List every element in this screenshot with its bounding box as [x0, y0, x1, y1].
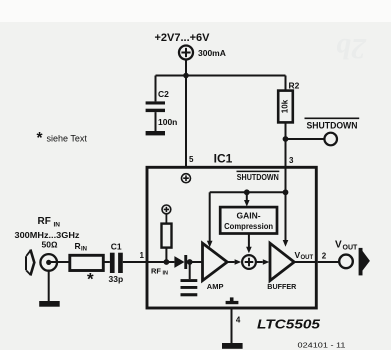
svg-text:*: *: [87, 270, 94, 289]
input arrow hollow: [26, 250, 34, 276]
value 100n: [158, 117, 177, 127]
node resistor/RF junction: [164, 259, 170, 265]
label C2: [158, 89, 169, 99]
svg-text:+2V7...+6V: +2V7...+6V: [154, 32, 210, 44]
ground under connector: [39, 301, 60, 307]
wire left branch to AMP with arrow: [209, 192, 211, 241]
svg-text:GAIN-: GAIN-: [237, 211, 261, 221]
ground under internal capacitor: [181, 293, 198, 296]
label VOUT inside IC: [295, 250, 314, 261]
wire supply terminal to top rail: [185, 59, 187, 75]
svg-text:R2: R2: [289, 81, 300, 91]
output arrow solid: [359, 248, 370, 276]
value 33p: [109, 274, 124, 284]
note siehe Text: [37, 130, 88, 147]
svg-text:Compression: Compression: [224, 221, 273, 231]
label SHUTDOWN (overlined): [307, 121, 358, 132]
svg-text:2b: 2b: [336, 32, 367, 65]
label R2: [289, 81, 300, 91]
SHUTDOWN terminal circle: [324, 133, 337, 146]
svg-text:5: 5: [189, 155, 194, 164]
svg-text:OUT: OUT: [301, 255, 314, 261]
wire right branch to BUFFER with arrow: [285, 192, 287, 240]
wire connector to RIN: [49, 261, 70, 263]
svg-text:R: R: [75, 241, 81, 251]
caption 024101-11: [298, 341, 346, 350]
svg-text:RF: RF: [38, 216, 51, 227]
svg-text:C1: C1: [111, 242, 122, 252]
svg-text:300MHz...3GHz: 300MHz...3GHz: [15, 230, 80, 240]
output terminal circle: [339, 255, 353, 269]
wire cathode to AMP: [187, 261, 203, 263]
wire resistor to RF line: [165, 248, 167, 262]
capacitor C2: [146, 101, 165, 112]
svg-text:SHUTDOWN: SHUTDOWN: [307, 121, 358, 132]
pin 4 wire to ground: [231, 309, 233, 343]
wire tap to gain-compression box with arrow: [246, 192, 248, 200]
wire C2 drop: [155, 76, 157, 102]
label SHUTDOWN inside IC (overlined): [237, 173, 279, 182]
resistor RIN: [70, 255, 104, 270]
wire RIN to C1: [103, 261, 110, 263]
gain-compression box: [220, 207, 277, 233]
svg-text:V: V: [335, 240, 342, 251]
svg-text:IN: IN: [54, 222, 61, 229]
pin 3 label: [289, 156, 294, 165]
value 10k (rotated): [281, 99, 290, 113]
supply label +2V7...+6V: [154, 32, 210, 44]
svg-text:300mA: 300mA: [198, 48, 226, 58]
pin 1 label: [140, 251, 145, 260]
label RF IN inside IC: [151, 267, 168, 277]
op-amp IC1 box LTC5505: [147, 167, 316, 308]
wire AMP output to summing node with arrow: [227, 261, 234, 263]
wire gain box to summing node with arrow: [248, 234, 250, 248]
wire R2 to shutdown node: [285, 122, 287, 139]
Vcc circled plus inside IC: [182, 174, 191, 183]
capacitor internal: [181, 279, 198, 289]
ground under C2: [146, 131, 165, 135]
resistor R2: [278, 91, 293, 123]
asterisk under RIN: [87, 270, 94, 289]
node buffer tap: [283, 189, 289, 195]
supply terminal circle with plus: [179, 46, 193, 60]
svg-text:OUT: OUT: [343, 245, 359, 252]
capacitor C1: [110, 253, 123, 273]
wire junction down to internal capacitor: [189, 262, 191, 279]
label LTC5505: [257, 317, 321, 332]
wire top rail: [156, 75, 286, 77]
label VOUT output: [335, 240, 358, 252]
coax connector J1: [40, 254, 57, 271]
wire C1 to pin 1: [123, 261, 147, 263]
svg-text:1: 1: [140, 251, 145, 260]
svg-text:SHUTDOWN: SHUTDOWN: [237, 173, 279, 182]
svg-text:IN: IN: [163, 271, 169, 277]
svg-text:AMP: AMP: [207, 282, 224, 291]
label 50 ohm: [42, 239, 58, 249]
svg-text:024101 - 11: 024101 - 11: [298, 341, 346, 350]
svg-text:BUFFER: BUFFER: [267, 282, 297, 291]
pin 5 label: [189, 155, 194, 164]
svg-text:LTC5505: LTC5505: [257, 317, 321, 332]
wire summing node to BUFFER with arrow: [256, 261, 263, 263]
svg-text:IC1: IC1: [214, 152, 233, 166]
summing node circle with plus: [242, 255, 256, 269]
svg-text:33p: 33p: [109, 274, 124, 284]
svg-text:IN: IN: [81, 247, 87, 253]
current source I1 inside IC: [162, 205, 171, 214]
label IC1: [214, 152, 233, 166]
svg-text:100n: 100n: [158, 117, 177, 127]
diode D1: [174, 255, 187, 269]
svg-text:3: 3: [289, 156, 294, 165]
wire connector to ground: [48, 271, 50, 301]
label C1: [111, 242, 122, 252]
op-amp AMP triangle: [203, 243, 228, 280]
node supply junction: [183, 73, 189, 79]
label 300MHz...3GHz: [15, 230, 80, 240]
wire pin 5 drop: [185, 76, 187, 167]
wire C2 to ground: [155, 112, 157, 131]
svg-text:*: *: [37, 130, 44, 147]
label RF IN input: [38, 216, 61, 229]
wire node to SHUTDOWN terminal: [286, 138, 325, 140]
ground bottom: [222, 343, 243, 349]
pin 4 label: [236, 316, 241, 325]
pin 2 label: [322, 252, 327, 261]
svg-text:siehe Text: siehe Text: [47, 134, 88, 144]
wire BUFFER to pin 2: [294, 261, 316, 263]
wire pin 2 to output terminal: [318, 261, 340, 263]
svg-text:50Ω: 50Ω: [42, 239, 58, 249]
node gain-compression tap: [244, 189, 250, 195]
svg-text:RF: RF: [151, 267, 161, 276]
svg-text:4: 4: [236, 316, 241, 325]
label RIN: [75, 241, 88, 253]
supply current label 300mA: [198, 48, 226, 58]
internal ground at IC bottom: [226, 297, 239, 304]
pin 1 wire into IC: [146, 261, 174, 263]
svg-text:2: 2: [322, 252, 327, 261]
op-amp BUFFER triangle: [270, 243, 294, 280]
wire source to resistor: [165, 214, 167, 224]
node diode cathode junction: [187, 259, 193, 265]
wire internal shutdown rail: [210, 191, 286, 193]
wire node down to pin 3: [285, 139, 287, 192]
wire top rail to R2: [285, 76, 287, 91]
resistor internal: [162, 224, 172, 248]
svg-text:C2: C2: [158, 89, 169, 99]
svg-text:10k: 10k: [281, 99, 290, 113]
node shutdown junction: [283, 136, 289, 142]
